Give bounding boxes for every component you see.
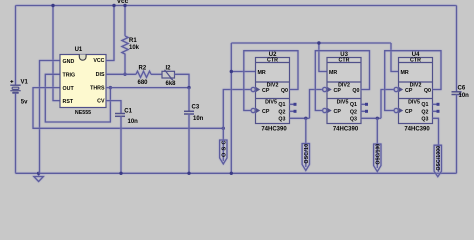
wire: U2 MR vertical to ground rail [230, 43, 232, 173]
resistor R1 10k [122, 6, 140, 75]
svg-text:VCC: VCC [93, 58, 104, 64]
junction OSC tap [222, 127, 225, 130]
svg-text:CTR: CTR [339, 58, 350, 64]
wire: U2 Q1 stub [290, 103, 294, 105]
svg-text:Vcc: Vcc [117, 0, 129, 5]
wire: U2 Q3 up to U3 CP [310, 90, 323, 119]
wire: U3 Q3 out [361, 117, 381, 119]
svg-text:C1: C1 [124, 108, 132, 114]
wire: U4 Q1 stub [433, 103, 437, 105]
flag OSC/1000 [434, 145, 442, 177]
svg-text:DIV5: DIV5 [408, 99, 420, 105]
svg-text:U1: U1 [75, 47, 83, 53]
svg-text:CP: CP [262, 88, 270, 94]
svg-text:Q3: Q3 [350, 117, 357, 123]
wire: VCC pin to rail [106, 6, 114, 61]
svg-text:C6: C6 [458, 86, 466, 92]
wire: U4 Q0 loop to CP(DIV5) [385, 51, 441, 111]
wire: U4 Q3 to flag [433, 118, 439, 172]
counter U2 74HC390 [251, 52, 289, 132]
capacitor C6 10n [452, 86, 470, 174]
wire: U3 MR vertical [319, 43, 327, 72]
svg-text:74HC390: 74HC390 [261, 126, 287, 132]
potentiometer I2 6k8 [162, 66, 176, 88]
svg-text:Q0: Q0 [424, 88, 431, 94]
wire: C6 branch from rail [456, 6, 458, 92]
svg-text:10k: 10k [129, 45, 140, 51]
svg-text:Q0: Q0 [352, 88, 359, 94]
svg-text:OSC/100: OSC/100 [376, 144, 382, 165]
svg-text:Q2: Q2 [421, 110, 428, 116]
junction U2 MR [230, 70, 233, 73]
wire: battery V1 top lead [15, 6, 17, 86]
svg-text:DIV5: DIV5 [265, 99, 277, 105]
wire: U4 MR vertical [391, 43, 399, 72]
svg-text:74HC390: 74HC390 [404, 126, 430, 132]
svg-text:CV: CV [97, 99, 105, 105]
counter U3 74HC390 [323, 52, 361, 132]
svg-text:GND: GND [63, 59, 75, 65]
junction OSC/100 tap [376, 117, 379, 120]
wire: TRIG to THRS node [45, 74, 110, 122]
wire: MR net line [231, 42, 391, 44]
wire: U2 Q2 stub [290, 110, 294, 112]
svg-text:NE555: NE555 [75, 110, 91, 116]
counter U4 74HC390 [394, 52, 432, 132]
svg-text:C3: C3 [192, 105, 200, 111]
junction U3 MR on MR net [317, 41, 320, 44]
junction VCC on rail [112, 4, 115, 7]
ground symbol [34, 173, 44, 181]
wire: U2 MR pin [231, 71, 255, 73]
svg-text:Q2: Q2 [350, 110, 357, 116]
svg-text:RST: RST [63, 99, 74, 105]
junction C1 on ground rail [119, 172, 122, 175]
svg-text:10n: 10n [128, 119, 139, 125]
svg-text:Q1: Q1 [350, 102, 357, 108]
wire: DIS pin to R2 [106, 73, 136, 75]
wire: GND pin to ground rail [40, 61, 61, 174]
wire: U3 Q1 stub [361, 103, 365, 105]
svg-text:CTR: CTR [410, 58, 421, 64]
wire: OSC tap down to flag [222, 128, 224, 161]
wire: ground rail [16, 172, 457, 174]
wire: OUT to OSC line [33, 88, 223, 129]
junction: ground symbol on rail [37, 172, 40, 175]
junction R1 on rail [123, 4, 126, 7]
svg-text:680: 680 [138, 80, 149, 86]
svg-text:10n: 10n [459, 93, 470, 99]
svg-text:Q0: Q0 [281, 88, 288, 94]
flag OSC/10 [302, 144, 310, 171]
svg-text:MR: MR [401, 70, 409, 76]
svg-text:TRIG: TRIG [63, 73, 76, 79]
wire: OSC/10 tap down to flag [305, 118, 307, 167]
svg-text:DIS: DIS [96, 72, 105, 78]
capacitor C1 10n [115, 108, 138, 173]
capacitor C3 10n [184, 88, 204, 174]
battery V1 [10, 80, 28, 106]
flag OSC [220, 140, 228, 164]
junction C3 on ground rail [187, 172, 190, 175]
resistor R2 680 [136, 66, 151, 86]
wire: U3 Q0 loop to CP(DIV5) [315, 51, 369, 111]
svg-text:R1: R1 [129, 38, 137, 44]
svg-text:74HC390: 74HC390 [333, 126, 359, 132]
wire: U4 Q2 stub [433, 110, 437, 112]
svg-text:Q1: Q1 [421, 102, 428, 108]
wire: U3 Q2 stub [361, 110, 365, 112]
junction OSC/10 tap [304, 117, 307, 120]
svg-text:CP: CP [334, 88, 342, 94]
svg-text:CP: CP [405, 88, 413, 94]
wire: +5V top rail [16, 5, 457, 7]
svg-text:Q3: Q3 [421, 117, 428, 123]
wire: +5 to RST (vertical x=53) [53, 6, 60, 101]
wire: U3 Q3 up to U4 CP [381, 90, 394, 119]
junction TRIG joins THRS [109, 86, 112, 89]
svg-text:THRS: THRS [90, 86, 105, 92]
svg-text:CP: CP [262, 109, 270, 115]
wire: battery V1 bottom lead [15, 94, 17, 174]
junction on top rail x=53 [51, 4, 54, 7]
svg-text:OSC/10: OSC/10 [304, 144, 310, 164]
svg-text:DIV5: DIV5 [337, 99, 349, 105]
svg-text:OUT: OUT [63, 86, 75, 92]
wire: U2 Q0 loop to CP(DIV5) [244, 51, 298, 111]
junction R1 on DIS wire [123, 73, 126, 76]
svg-text:CP: CP [334, 109, 342, 115]
svg-text:I2: I2 [166, 66, 172, 72]
wire: pot to THRS node [175, 74, 190, 87]
wire: R2 to potentiometer [151, 73, 162, 75]
svg-text:CP: CP [405, 109, 413, 115]
svg-text:Q3: Q3 [278, 117, 285, 123]
junction U2 MR vert on ground rail [230, 172, 233, 175]
svg-text:CTR: CTR [267, 58, 278, 64]
svg-text:Q1: Q1 [278, 102, 285, 108]
svg-text:OSC: OSC [222, 140, 228, 157]
wire: THRS pin [106, 87, 189, 89]
wire: CV pin to C1 [106, 101, 121, 114]
wire: U2 Q3 out [290, 117, 310, 119]
svg-text:V1: V1 [21, 80, 29, 86]
svg-text:10n: 10n [193, 116, 204, 122]
svg-text:6k8: 6k8 [166, 81, 177, 87]
wire: OSC/100 tap down to flag [376, 118, 378, 168]
svg-text:5v: 5v [21, 99, 28, 105]
svg-text:R2: R2 [139, 66, 147, 72]
svg-text:Q2: Q2 [278, 110, 285, 116]
svg-text:MR: MR [258, 70, 266, 76]
wire: OSC to U2 CP [223, 90, 251, 129]
timer U1 NE555 [60, 47, 106, 116]
junction THRS node [187, 86, 190, 89]
svg-text:MR: MR [329, 70, 337, 76]
flag OSC/100 [374, 144, 382, 172]
svg-text:OSC/1000: OSC/1000 [436, 146, 442, 171]
